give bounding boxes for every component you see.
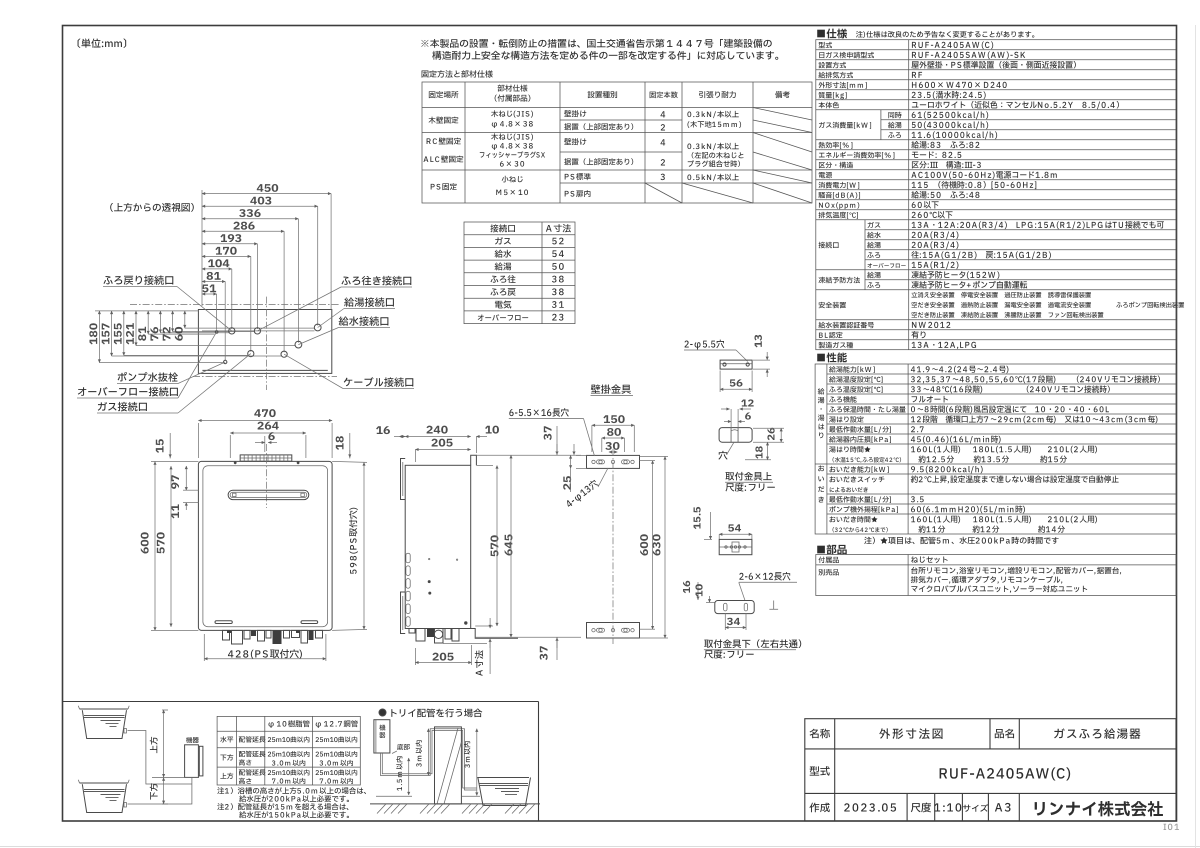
top view front edge detail — [202, 369, 327, 371]
piping notes — [217, 787, 366, 794]
top view depth connector 121 — [136, 345, 295, 347]
front view dim 470 — [198, 420, 332, 422]
torii dim 3m right — [464, 741, 470, 767]
piping table rows — [220, 736, 233, 742]
dim kahou (downward) — [150, 783, 158, 799]
spec section header — [817, 29, 847, 39]
spec safety devices row — [819, 302, 846, 308]
sheet number I01 — [1164, 824, 1180, 830]
top view dim 170 — [202, 255, 251, 257]
top view depth connector 180 — [99, 362, 223, 364]
plate 2-phi5.5 dim 13 — [754, 335, 761, 348]
torii equipment box — [374, 720, 390, 753]
angle mark — [769, 601, 778, 610]
front view dim 428 PS — [228, 649, 302, 659]
side view dim 10 — [485, 426, 499, 434]
top view depth connector 60 — [185, 327, 315, 329]
top view left extension line — [201, 190, 203, 306]
upper mount bracket dim 26 — [767, 428, 774, 440]
middle plate — [719, 539, 752, 554]
upper mount bracket dim 12 — [741, 399, 753, 406]
top view dim 450 — [202, 193, 331, 195]
top view dim 104 — [202, 268, 232, 270]
front view bottom pipe stubs — [223, 630, 230, 640]
port gas — [229, 328, 235, 334]
wall bracket dim 25 — [563, 476, 571, 490]
fixing row wood wall — [429, 117, 459, 124]
top view center line — [266, 297, 268, 390]
connection size table grid — [464, 222, 575, 324]
spec gas consumption rows — [819, 122, 871, 129]
port kyuto — [314, 324, 321, 331]
installation regulation note line1 — [421, 39, 771, 48]
label cable — [344, 377, 414, 387]
port furo-yuki — [248, 351, 254, 357]
label kyuto — [344, 297, 394, 307]
torii section title — [379, 709, 386, 716]
piping table header — [268, 720, 309, 728]
slot hole label 6-5.5x16 — [509, 408, 568, 417]
front view dim 11 — [171, 504, 179, 518]
top view wall chain line — [130, 304, 340, 306]
wall bracket dim 150 — [603, 415, 624, 423]
front view inner panel — [203, 466, 328, 627]
side view extension lines right — [476, 454, 581, 456]
front view dim 6 — [255, 442, 265, 444]
side view louver slots — [406, 553, 410, 563]
top view port row line — [202, 330, 315, 332]
front view exhaust louver — [228, 490, 309, 499]
top view dim extension lines — [330, 194, 332, 310]
parts table text — [818, 557, 838, 564]
spec table grid — [816, 40, 1176, 350]
ground hatching — [377, 804, 535, 814]
updown dim reference ticks — [162, 709, 168, 711]
performance note — [864, 537, 1058, 544]
bottom-left section right border — [538, 702, 540, 822]
title block frame — [805, 719, 1176, 821]
spec middle rows — [819, 142, 853, 149]
front view dim 570 — [157, 532, 165, 553]
spec freeze prevention rows — [819, 277, 860, 284]
port kyusui — [295, 341, 302, 348]
lower mount bracket dim 16 — [683, 581, 690, 594]
side view gas valve circle — [434, 630, 442, 638]
wall bracket top plate — [587, 455, 640, 468]
front view dim 264 — [230, 432, 306, 434]
port pump drain — [224, 360, 227, 363]
upper mount bracket hole label — [718, 451, 727, 460]
fixing table grid — [422, 82, 812, 203]
side view panel dots — [429, 558, 430, 559]
title block row2 model — [810, 766, 830, 775]
upper mount bracket plate — [719, 428, 752, 443]
plate 2-phi5.5 — [720, 360, 752, 369]
fixing row PS — [431, 183, 457, 190]
side view top front step — [471, 455, 477, 465]
performance section header — [817, 352, 847, 362]
wall bracket dim 630 — [652, 534, 660, 555]
lower mount bracket dim 10 — [695, 584, 702, 597]
top view depth connector 76 — [160, 332, 229, 334]
side view body — [405, 465, 471, 628]
dim jouhou (upward) — [150, 737, 158, 753]
label furo-modori — [103, 275, 173, 285]
fixing table header text — [429, 91, 459, 98]
wall bracket bottom plate — [587, 623, 640, 639]
torii bathtub — [477, 778, 530, 806]
side view dim 205 top — [431, 439, 452, 447]
wall bracket title — [591, 384, 631, 393]
torii ground line — [370, 803, 540, 805]
performance table grid — [815, 364, 1176, 534]
label kyusui — [339, 316, 389, 326]
wall bracket 4-phi13 label — [564, 479, 599, 510]
side view dim 645 — [505, 534, 513, 555]
fixing row RC ALC wall — [427, 138, 461, 145]
side view wall bracket top — [401, 459, 406, 500]
port overflow — [215, 331, 218, 334]
top view dim 336 — [202, 218, 298, 220]
torii dim 3m left — [416, 740, 422, 766]
spec table upper rows — [819, 42, 832, 48]
label overflow — [78, 387, 178, 397]
front view bottom slots — [215, 621, 232, 624]
installation regulation note line2 — [432, 51, 778, 60]
wall bracket dim 30 — [605, 442, 619, 450]
top view dim 403 — [202, 205, 318, 207]
front view center line — [266, 444, 268, 508]
lower mount bracket title — [704, 639, 801, 648]
middle plate dim 54 — [728, 524, 741, 531]
spec connection rows — [819, 242, 839, 249]
top view depth connector 72 — [173, 331, 255, 333]
upper mount bracket dim 18 — [755, 446, 762, 459]
lower mount bracket plate — [715, 601, 754, 614]
page artifact bottom line — [0, 846, 1200, 848]
side view dim 205 bottom — [432, 653, 453, 661]
bathtub lower — [80, 782, 129, 784]
label furo-yuki — [341, 276, 411, 286]
top view dim 51 — [202, 293, 217, 295]
title block row3 — [809, 803, 829, 813]
front view dim 598 PS — [349, 508, 358, 574]
fixing table blank cell diagonals — [753, 108, 812, 121]
front view body — [198, 461, 332, 630]
performance vertical group labels — [818, 388, 825, 394]
wall bracket center line — [612, 449, 614, 644]
connection size table text — [490, 224, 515, 232]
title block row1 — [810, 729, 830, 739]
page artifact right line — [1195, 25, 1197, 848]
side view bottom step and pipes — [471, 629, 518, 639]
performance table rows — [829, 366, 875, 373]
side view dim A — [475, 650, 484, 676]
top view depth connector 157 — [112, 355, 281, 357]
torii teibu label — [397, 744, 410, 750]
upper mount bracket title — [725, 472, 771, 481]
piping length table grid — [217, 716, 360, 785]
torii dim 1.5m — [396, 756, 402, 790]
label pump drain — [118, 372, 178, 382]
top view body outline — [198, 310, 331, 374]
equipment box — [185, 745, 199, 778]
side view dim 240 — [426, 426, 447, 434]
front view dim 600 — [141, 532, 149, 553]
top view dim 286 — [202, 230, 284, 232]
pipe from upper tub — [128, 731, 192, 785]
spec last rows — [818, 322, 874, 328]
front view dim 15 — [156, 439, 164, 453]
parts table grid — [816, 555, 1176, 596]
top view dim 81 — [202, 281, 225, 283]
front view dim 97 — [171, 475, 179, 489]
wall bracket dim 80 — [607, 428, 621, 436]
wall bracket dim 600 — [640, 534, 648, 555]
port furo-modori — [254, 328, 260, 334]
bottom section divider line — [63, 701, 539, 703]
plate 2-phi5.5 label — [685, 340, 725, 350]
units note — [78, 38, 127, 47]
top view dim 193 — [202, 243, 257, 245]
label gas — [98, 402, 147, 412]
side view dim 16 — [376, 426, 390, 434]
front view dim 18 — [336, 436, 344, 450]
upper mount bracket dim 6 — [745, 413, 751, 420]
top view depth connector 155 — [124, 354, 248, 356]
lower mount bracket slot label — [739, 572, 790, 581]
bathtub upper — [80, 708, 129, 710]
top view depth connector 81 — [148, 333, 214, 335]
lower mount bracket dim 34 — [727, 618, 740, 625]
side view dim 570 — [490, 535, 498, 556]
top view depth dims — [95, 310, 198, 312]
front view top screws — [234, 462, 236, 464]
torii wall — [435, 727, 462, 804]
pipe from lower tub — [128, 778, 192, 805]
parts section header — [817, 545, 847, 555]
middle plate dim 15.5 — [694, 507, 701, 529]
port cable — [281, 351, 287, 357]
top view bottom chain line — [193, 375, 337, 377]
front view top vent — [240, 455, 292, 461]
fixing table title — [422, 70, 493, 77]
dim 37 top — [544, 426, 552, 440]
torii pipe route — [381, 729, 478, 790]
dim 37 bottom — [540, 646, 548, 660]
front view bottom mount tabs — [227, 630, 231, 633]
side view wall bracket bottom — [401, 592, 406, 634]
top view title — [110, 203, 194, 212]
plate 2-phi5.5 dim 56 — [730, 379, 743, 386]
